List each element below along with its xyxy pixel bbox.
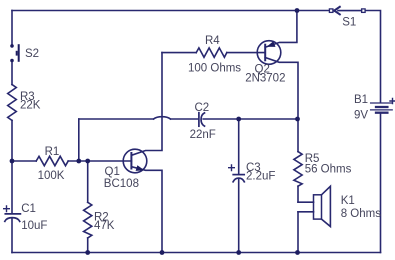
svg-text:S1: S1 — [342, 17, 356, 29]
svg-text:K1: K1 — [341, 195, 355, 207]
svg-text:R4: R4 — [205, 35, 220, 47]
svg-text:22K: 22K — [20, 100, 41, 112]
svg-text:2.2uF: 2.2uF — [246, 170, 275, 182]
svg-text:10uF: 10uF — [21, 220, 47, 232]
svg-text:C2: C2 — [195, 102, 210, 114]
svg-text:2N3702: 2N3702 — [245, 73, 285, 85]
svg-text:100 Ohms: 100 Ohms — [188, 63, 241, 75]
svg-text:R1: R1 — [45, 146, 60, 158]
svg-text:9V: 9V — [354, 109, 368, 121]
svg-text:56 Ohms: 56 Ohms — [305, 163, 352, 175]
svg-text:100K: 100K — [38, 170, 65, 182]
svg-text:C1: C1 — [21, 203, 36, 215]
svg-text:8 Ohms: 8 Ohms — [341, 208, 382, 220]
svg-text:Q1: Q1 — [105, 166, 120, 178]
svg-text:B1: B1 — [354, 94, 368, 106]
svg-text:BC108: BC108 — [104, 178, 139, 190]
svg-text:47K: 47K — [94, 220, 115, 232]
svg-text:S2: S2 — [25, 48, 39, 60]
svg-text:22nF: 22nF — [190, 129, 216, 141]
